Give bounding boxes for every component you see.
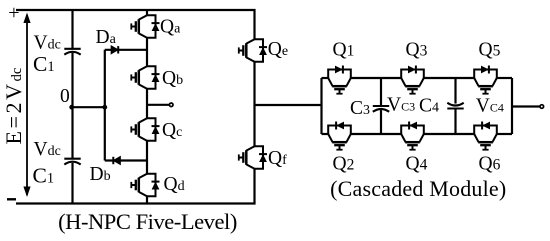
wire DC bus upper [71, 10, 73, 49]
transistor Qc [131, 118, 159, 141]
transistor Q2 [328, 122, 351, 150]
wire module bottom rail seg3 [424, 133, 475, 135]
wire DC bus lower [71, 163, 73, 204]
wire node 0 link [73, 106, 105, 108]
wire module bottom rail seg2 [351, 133, 402, 135]
label minus [7, 198, 16, 200]
diode Db [113, 157, 120, 165]
transistor Q1 [328, 66, 351, 94]
svg-text:(H-NPC Five-Level): (H-NPC Five-Level) [58, 209, 237, 234]
svg-text:Q6: Q6 [479, 154, 501, 175]
transistor Q3 [401, 66, 424, 94]
wire clamp bus [104, 50, 106, 161]
wire module bottom rail seg4 [497, 133, 512, 135]
transistor Qb [131, 66, 159, 89]
wire bottom rail to Qf leg [16, 169, 255, 204]
transistor Q5 [474, 66, 497, 94]
wire module top rail seg2 [351, 77, 402, 79]
wire module input [255, 104, 322, 106]
svg-text:Q1: Q1 [333, 40, 355, 61]
wire Db branch [105, 159, 147, 161]
wire C3 leg upper [380, 78, 382, 106]
capacitor C3 [373, 106, 389, 112]
terminal NPC output [169, 103, 173, 107]
wire NPC leg Qd-bottom [146, 196, 148, 203]
wire C4 leg lower [454, 108, 456, 134]
wire module left side [320, 78, 322, 134]
wire module output [512, 105, 540, 107]
wire DC bus middle [71, 53, 73, 159]
junction dot node 0 right [102, 105, 107, 110]
wire module top rail seg3 [424, 77, 475, 79]
wire module right side [511, 78, 513, 134]
svg-text:Q4: Q4 [406, 154, 428, 175]
capacitor C1 bottom [64, 159, 80, 165]
wire module bottom rail seg1 [322, 133, 329, 135]
terminal module output [540, 105, 544, 109]
transistor Q4 [401, 122, 424, 150]
svg-text:0: 0 [60, 86, 70, 107]
transistor Q6 [474, 122, 497, 150]
wire top rail to Qe leg [16, 10, 255, 39]
wire NPC leg Qc-Qd [146, 141, 148, 174]
wire C3 leg lower [380, 110, 382, 134]
wire NPC leg Qa-Qb [146, 38, 148, 67]
svg-text:+: + [8, 2, 19, 24]
transistor Qe [239, 39, 267, 62]
wire C4 leg upper [454, 78, 456, 104]
transistor Qd [131, 174, 159, 197]
svg-text:(Cascaded Module): (Cascaded Module) [330, 176, 506, 201]
diode Da [111, 46, 118, 54]
wire module top rail seg4 [497, 77, 512, 79]
wire Da branch [105, 49, 147, 51]
svg-text:Q3: Q3 [406, 40, 428, 61]
wire module top rail seg1 [322, 77, 329, 79]
svg-text:Q2: Q2 [333, 154, 355, 175]
transistor Qf [239, 146, 267, 169]
capacitor C4 [447, 103, 463, 109]
wire NPC leg top drop [146, 10, 148, 15]
capacitor C1 top [64, 49, 80, 55]
wire NPC output stub [147, 104, 169, 106]
source arrow E [23, 13, 30, 198]
junction dot node 0 left [69, 105, 74, 110]
transistor Qa [131, 15, 159, 38]
svg-text:Q5: Q5 [479, 40, 501, 61]
wire NPC leg Qb-Qc [146, 89, 148, 119]
wire Qe-Qf midpoint [253, 62, 255, 147]
